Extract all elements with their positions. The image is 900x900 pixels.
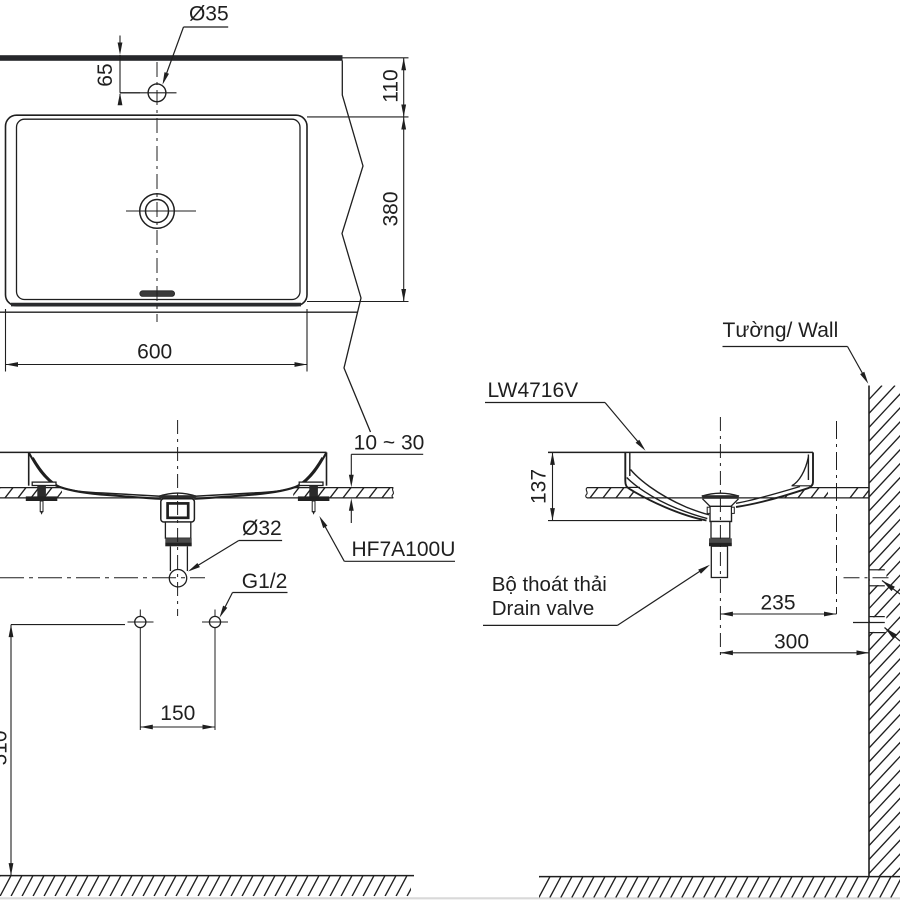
label Ø32 leader shelf: [239, 540, 282, 542]
plan view: overflow slot: [140, 291, 175, 297]
side view: back ledge base line: [792, 485, 811, 487]
clamp HF7A100U right: bolt tip: [312, 501, 315, 512]
svg-text:235: 235: [760, 592, 795, 615]
plan view: sink outer outline (rounded rect): [6, 115, 308, 306]
wall pipe stub upper: centerline: [844, 577, 891, 579]
side view: back inner rim edge: [807, 455, 809, 481]
side view: washbasin back outer profile: [736, 452, 813, 507]
label Ø35 leader shelf: [184, 26, 229, 28]
label Tuong/Wall leader shelf: [723, 346, 848, 348]
side view: drain tailpiece: [711, 522, 730, 539]
plan view: drain horizontal centerline: [126, 210, 196, 212]
dim 235 left arrowhead: [720, 612, 733, 617]
dim 10~30 lower arrow tail: [350, 510, 352, 524]
svg-text:Ø32: Ø32: [242, 517, 282, 540]
front view: pipe end circle (Ø32): [169, 570, 186, 587]
label LW4716V leader line: [605, 403, 644, 449]
front view: washbasin left outer underside curve: [29, 452, 161, 498]
side view: washbasin body (white fill): [625, 452, 813, 521]
side view: drain coupling nut (dark bands): [709, 538, 732, 542]
label G1/2 leader shelf: [233, 592, 288, 594]
front view: counter right break end: [392, 488, 393, 498]
front view: right rim outer face: [326, 452, 328, 485]
label Ø35 leader line: [164, 27, 184, 82]
side view: front ledge base line: [627, 486, 640, 488]
clamp HF7A100U left: bolt column: [37, 486, 46, 497]
side view: back basin interior curve: [736, 487, 800, 504]
dim 65 bottom arrow tail: [119, 94, 121, 105]
side view: counter bottom line: [587, 497, 869, 499]
dim 510 top arrowhead: [9, 625, 14, 638]
side view: drain flange dome: [702, 493, 739, 496]
side view: drain vertical centerline: [719, 417, 721, 658]
side view: counter left break end: [586, 488, 587, 498]
front view: drain vertical centerline: [177, 420, 179, 616]
plan view: faucet hole horizontal centerline: [120, 92, 177, 94]
side view: drain body: [710, 506, 732, 521]
svg-text:380: 380: [380, 191, 403, 226]
dim 110 line: [403, 58, 405, 117]
front view: right inner curve (basin wall): [195, 458, 323, 497]
supply hole left extension line: [139, 628, 141, 730]
label HF7A100U leader line: [321, 520, 344, 562]
supply hole right centerlines: [202, 621, 228, 623]
page bottom faint border: [0, 897, 900, 899]
label Ø32 leader arrowhead: [188, 563, 200, 572]
front view: drain flange underside (dark band): [159, 495, 195, 499]
dim 10~30 upper arrow tail: [350, 454, 352, 476]
clamp HF7A100U right: top plate: [299, 482, 323, 485]
supply hole right extension line: [214, 628, 216, 730]
front view: drain pipe: [169, 546, 171, 571]
dim 150 left arrowhead: [140, 725, 153, 730]
dim 235 right arrowhead: [824, 612, 837, 617]
label HF7A100U leader shelf: [344, 560, 455, 562]
plan view: counter front edge line: [0, 311, 358, 313]
dim 150 right arrowhead: [203, 725, 216, 730]
front view: washbasin right outer underside curve: [194, 452, 326, 498]
dim 510 line: [10, 625, 12, 876]
label drain valve leader line: [617, 566, 707, 625]
dim 110 top arrowhead: [401, 58, 406, 71]
side view: drain flange underside (dark band): [702, 495, 738, 499]
svg-text:510: 510: [0, 730, 12, 765]
dim 380 top arrowhead: [401, 117, 406, 130]
dim 65 line: [119, 55, 121, 93]
dim 510 extension line: [11, 624, 125, 626]
dim 600 left arrowhead: [6, 362, 19, 367]
dim 137 line: [552, 452, 554, 520]
label Ø32 leader line: [190, 541, 239, 571]
svg-text:600: 600: [137, 340, 172, 363]
side view: counter top line: [587, 487, 869, 489]
dim 10~30 leader shelf: [351, 453, 423, 455]
dim 150 line: [140, 726, 215, 728]
label G1/2 leader arrowhead: [220, 606, 228, 618]
clamp HF7A100U right: lower plate (nut): [298, 496, 330, 501]
label drain valve leader shelf: [483, 624, 617, 626]
clamp HF7A100U left: bolt tip: [40, 501, 43, 512]
dim 380 extension line bottom: [307, 301, 409, 303]
front view: drain coupling nut (dark bands): [165, 538, 191, 542]
svg-text:Tường/ Wall: Tường/ Wall: [723, 319, 839, 342]
dim 10~30 upper arrowhead: [349, 475, 354, 488]
dim 380 bottom arrowhead: [401, 289, 406, 302]
svg-text:110: 110: [380, 69, 403, 102]
plan view: drain hole inner circle: [146, 200, 169, 223]
floor line (left): [0, 875, 414, 877]
wall pipe stub upper: white gap: [870, 571, 887, 586]
side view: washbasin front outer profile: [625, 452, 706, 520]
dim 235 line: [720, 613, 836, 615]
dim 300 left arrowhead: [720, 650, 733, 655]
supply hole left centerlines: [128, 621, 154, 623]
plan view: sink inner rim outline: [17, 119, 301, 299]
dim 65 top arrow tail: [119, 36, 121, 46]
supply hole left circle: [135, 616, 146, 627]
clamp HF7A100U left: top plate: [32, 482, 56, 485]
front view: washbasin body (white fill): [29, 452, 327, 499]
dim 600 right arrowhead: [295, 362, 308, 367]
clamp HF7A100U left: lower plate (nut): [26, 496, 58, 501]
side view: back rim inner curve: [792, 457, 808, 486]
dim 10~30 lower arrowhead: [349, 498, 354, 511]
side view: front inner ledge + basin interior upper curve: [631, 470, 710, 515]
label Ø35 leader arrowhead: [163, 72, 170, 85]
wall pipe stub lower: leader arrowhead: [885, 628, 897, 639]
svg-text:Drain valve: Drain valve: [492, 597, 595, 620]
front view: rim top line: [0, 451, 327, 453]
dim 65 bottom arrowhead: [118, 93, 123, 106]
front view: drain tailpiece: [165, 522, 190, 538]
dim 137 top arrowhead: [550, 452, 555, 465]
dim 65 top arrowhead: [118, 43, 123, 56]
side view: rim top line: [548, 451, 813, 453]
dim 600 extension line right: [306, 309, 308, 372]
label Tuong/Wall leader arrowhead: [860, 372, 868, 384]
svg-text:150: 150: [160, 702, 195, 725]
plan view: vertical centerline: [156, 62, 158, 322]
front view: drain flange dome: [159, 493, 196, 496]
dim 380 extension line top: [307, 116, 409, 118]
svg-text:137: 137: [528, 469, 551, 504]
plan view: faucet hole circle: [148, 84, 166, 102]
wall pipe stub upper: outline: [869, 569, 885, 571]
floor hatch (left): [0, 876, 429, 897]
svg-text:65: 65: [94, 63, 117, 86]
side view: drain body side tabs: [707, 507, 710, 513]
dim 137 bottom arrowhead: [550, 508, 555, 520]
front view: counter top line: [0, 487, 393, 489]
plan view: drain hole outer circle: [140, 194, 175, 229]
plan view: sink bottom edge (thick): [11, 303, 301, 307]
plan view: counter back edge (thick bar): [0, 55, 343, 61]
side view: drain pipe: [711, 546, 727, 577]
label LW4716V leader arrowhead: [636, 440, 646, 451]
dim 600 extension line left: [5, 309, 7, 372]
label G1/2 leader line: [221, 593, 233, 616]
front view: counter bottom line: [0, 497, 393, 499]
side view: front inner rim edge: [629, 452, 631, 476]
wall edge line: [868, 386, 870, 878]
floor hatch (right): [528, 877, 900, 898]
plan view: break line (zigzag) at counter right: [342, 61, 371, 433]
front view: left inner curve (basin wall): [33, 458, 161, 497]
side view: front basin interior lower curve: [627, 478, 708, 519]
dim 65 extension line: [120, 92, 140, 94]
label drain valve leader arrowhead: [698, 565, 710, 574]
svg-text:HF7A100U: HF7A100U: [352, 538, 456, 561]
dim 300 line: [720, 652, 869, 654]
dim 380 line: [403, 117, 405, 302]
svg-text:300: 300: [774, 630, 809, 653]
wall pipe stub lower: white gap: [870, 617, 887, 632]
dim 600 line: [6, 364, 308, 366]
wall pipe stub upper: leader arrowhead: [882, 581, 895, 592]
dim 110 bottom arrowhead: [401, 105, 406, 118]
svg-text:Bộ thoát thải: Bộ thoát thải: [492, 573, 607, 596]
side view: counter hatch: [577, 488, 884, 499]
front view: drain body: [161, 499, 195, 522]
front view: counter hatch: [0, 488, 416, 499]
label LW4716V leader shelf: [485, 402, 605, 404]
label Tuong/Wall leader line: [848, 347, 867, 381]
wall hatch: [411, 386, 900, 878]
dim 510 bottom arrowhead: [9, 863, 14, 876]
wall pipe stub lower: outline: [869, 616, 885, 618]
front view: pipe horizontal centerline: [0, 577, 205, 579]
front view: drain body inner rect (thick): [168, 503, 189, 517]
floor line (right): [539, 876, 900, 878]
label HF7A100U leader arrowhead: [319, 516, 327, 528]
svg-text:LW4716V: LW4716V: [488, 379, 579, 402]
svg-text:10 ~ 30: 10 ~ 30: [354, 431, 425, 454]
svg-text:G1/2: G1/2: [242, 570, 288, 593]
clamp HF7A100U right: bolt column: [309, 486, 318, 497]
supply hole right circle: [209, 616, 220, 627]
front view: left rim outer face: [28, 452, 30, 485]
wall pipe stub lower: supply line: [853, 622, 885, 624]
dim 300 right arrowhead: [857, 650, 870, 655]
side view: faucet vertical centerline: [836, 421, 838, 614]
dim 137 extension line bottom: [548, 520, 702, 522]
side view: drain flange taper sides: [703, 499, 711, 507]
svg-text:Ø35: Ø35: [189, 2, 229, 25]
dim 110 extension line top: [343, 57, 409, 59]
